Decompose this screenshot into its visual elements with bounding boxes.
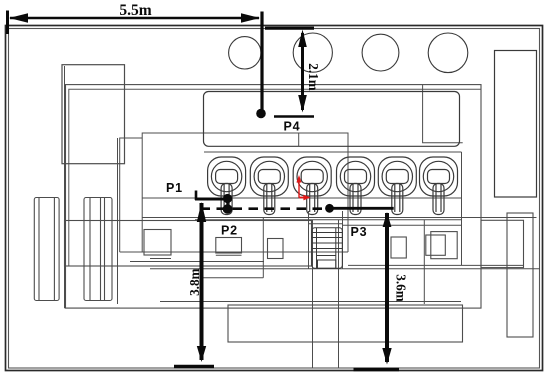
counter rect E: [65, 221, 312, 267]
dimension 5.5m: [8, 2, 261, 34]
hood stub vline x298: [298, 133, 300, 146]
line y219 right: [142, 217, 536, 219]
partition vline x263: [262, 218, 264, 278]
partition vline x424: [423, 220, 425, 304]
right wall x481: [480, 85, 482, 304]
burner 4: [337, 157, 375, 215]
counter edge segment right of rack: [343, 224, 462, 226]
svg-text:5.5m: 5.5m: [119, 2, 151, 19]
burner 3: [293, 157, 331, 215]
dimension 2.1m: [265, 28, 321, 112]
svg-text:3.8m: 3.8m: [187, 268, 202, 295]
prep-area bottom line: [120, 251, 348, 253]
dimension 3.6m: [354, 212, 409, 370]
burner 1: [208, 157, 246, 215]
box 5 inner: [426, 235, 446, 255]
stool circle 3: [362, 34, 399, 71]
right cabinet rect: [481, 220, 524, 267]
long line y308: [65, 307, 121, 309]
prep-area rect D: [142, 133, 348, 252]
red axis marker: [296, 175, 310, 200]
cabinet rect A top-left: [62, 65, 125, 164]
svg-text:P1: P1: [166, 181, 183, 195]
left wall vertical x64: [64, 66, 66, 308]
table T2 with planks: [84, 198, 112, 301]
point P4 dot: [256, 109, 266, 119]
rack ladder: [312, 228, 343, 268]
long line y302: [160, 301, 461, 303]
hood rect C1 (rounded): [204, 92, 460, 147]
box 1 base line: [150, 258, 171, 260]
point P3 dot: [325, 204, 334, 213]
burner 6: [420, 157, 458, 215]
burner symbols: [208, 157, 458, 215]
wall step line: [120, 138, 143, 252]
svg-text:P2: P2: [221, 224, 238, 238]
tall right rect G: [495, 51, 537, 198]
P4 bottom tick: [274, 115, 314, 118]
bottom rect F: [228, 305, 463, 342]
line y265 right: [348, 264, 524, 266]
P3 marker line: [330, 207, 394, 210]
table T1 with planks: [34, 198, 59, 301]
box 2 base: [216, 254, 242, 256]
burner band bottom line: [142, 197, 461, 199]
svg-text:P3: P3: [351, 225, 368, 239]
tall right rect H: [507, 213, 533, 337]
burner band right edge: [461, 152, 463, 265]
burner 2: [250, 157, 288, 215]
stool circle 4: [428, 33, 468, 73]
burner counter bottom: [195, 219, 462, 221]
burner band top line: [204, 151, 462, 153]
shelf line y278: [202, 277, 264, 279]
box 5 outer: [431, 232, 457, 259]
stool circle 1: [229, 37, 261, 69]
shelf line y261: [130, 261, 264, 263]
box 4: [391, 237, 406, 258]
dimension 3.8m: [174, 202, 214, 367]
inner wall rectangle B1: [66, 85, 482, 309]
point P1 marker line: [195, 191, 232, 214]
svg-text:3.6m: 3.6m: [393, 274, 408, 301]
box 3: [268, 239, 284, 259]
center column outer: [309, 211, 343, 368]
extension line down to P4: [260, 12, 263, 111]
inner wall rectangle B2: [69, 89, 481, 266]
wall line x117: [117, 138, 119, 304]
box 2: [216, 238, 242, 254]
hood partition line: [423, 85, 463, 143]
long line y269: [150, 268, 540, 270]
stool circle 2: [293, 33, 332, 72]
box 1: [144, 230, 171, 256]
svg-text:P4: P4: [284, 119, 301, 133]
svg-text:2.1m: 2.1m: [306, 63, 321, 90]
burner 5: [378, 157, 416, 215]
dashed reference line: [195, 207, 330, 210]
